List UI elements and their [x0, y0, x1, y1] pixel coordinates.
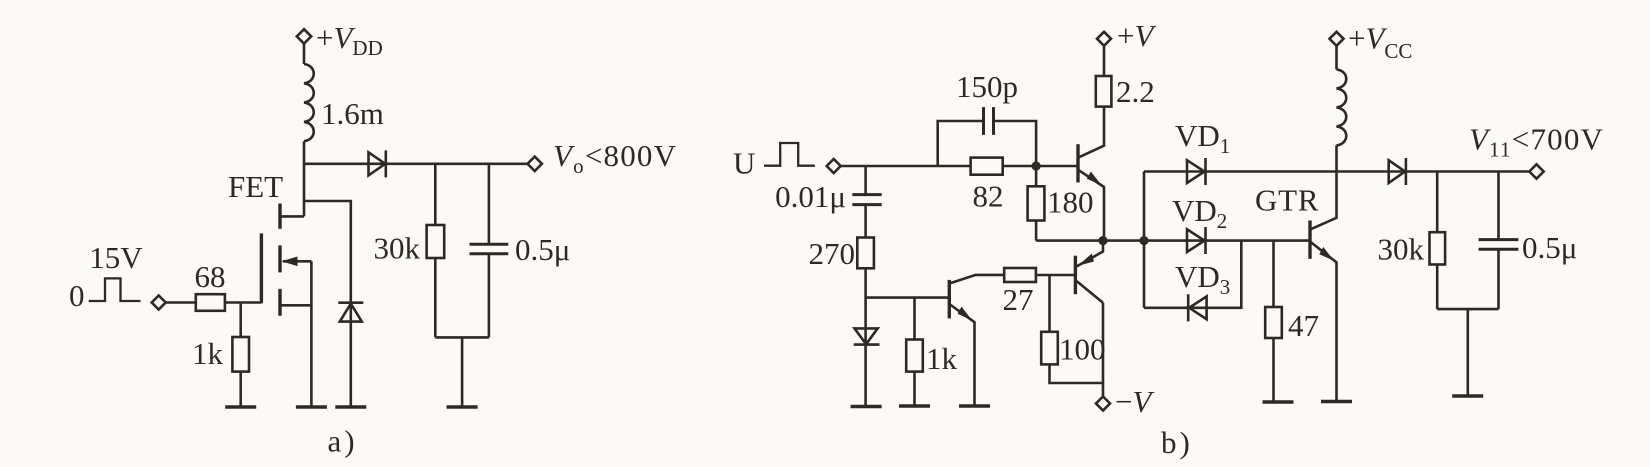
svg-text:V11<700V: V11<700V	[1469, 122, 1604, 162]
svg-text:VD1: VD1	[1175, 118, 1230, 158]
ground D3	[851, 405, 882, 408]
wire 30k b bottom	[1436, 265, 1439, 310]
svg-text:+VCC: +VCC	[1348, 21, 1412, 64]
svg-text:0.5μ: 0.5μ	[515, 232, 570, 267]
resistor R3 1k	[232, 337, 249, 372]
transistor Q2 emitter	[949, 304, 974, 406]
capacitor C4 0.5u	[1479, 240, 1519, 250]
transistor GTR bar	[1308, 221, 1311, 259]
svg-text:a): a)	[328, 424, 358, 459]
wire VDD to inductor	[303, 44, 306, 64]
resistor R8 82	[971, 158, 1003, 175]
svg-text:+VDD: +VDD	[316, 20, 383, 60]
diode D4 (output b)	[1389, 158, 1406, 185]
wire 1k b top	[913, 298, 916, 340]
wire main base line y240	[1036, 239, 1310, 242]
svg-text:0.01μ: 0.01μ	[775, 179, 846, 214]
svg-text:30k: 30k	[374, 231, 421, 266]
ground GTR	[1321, 400, 1352, 403]
ground RC a	[447, 405, 478, 408]
wire Q3 collector down	[1102, 303, 1105, 383]
capacitor C1 0.5u	[470, 244, 509, 253]
pulse waveform b	[764, 143, 815, 166]
resistor R12 30k	[1430, 232, 1446, 264]
node input diamond a	[152, 296, 166, 310]
svg-text:0: 0	[69, 278, 85, 313]
inductor L1 1.6m	[304, 64, 314, 141]
wire 30k b top	[1436, 172, 1439, 233]
wire 0.01u top	[864, 166, 867, 195]
wire FET source down	[310, 261, 313, 407]
transistor Q2 collector	[949, 275, 1004, 284]
capacitor C2 0.01u	[852, 195, 881, 205]
wire cap b top	[1497, 172, 1500, 240]
wire 270 to diode	[864, 268, 867, 406]
resistor R9 2.2	[1096, 76, 1112, 107]
wire 180 top	[1035, 166, 1038, 186]
svg-text:U: U	[733, 146, 755, 181]
svg-text:47: 47	[1288, 308, 1319, 343]
wire VD3 line	[1144, 241, 1241, 308]
ground body diode	[335, 405, 366, 408]
Q3 emitter arrow	[1078, 254, 1094, 266]
inductor L2	[1337, 69, 1347, 145]
wire body diode branch	[304, 201, 351, 407]
capacitor C3 150p	[984, 107, 994, 135]
wire VD1/output line	[1144, 170, 1529, 173]
node +V diamond	[1097, 32, 1111, 46]
wire 68 to gate	[225, 301, 262, 304]
node +VDD diamond	[297, 29, 311, 43]
junction dot VD branch	[1139, 236, 1148, 245]
ground 1k b	[899, 404, 930, 407]
svg-text:VD2: VD2	[1172, 193, 1227, 233]
transistor Q1 collector	[1078, 107, 1104, 158]
svg-text:150p: 150p	[956, 69, 1018, 104]
ground 47	[1263, 400, 1294, 403]
pulse waveform a	[89, 278, 141, 301]
wire 180 bottom	[1035, 221, 1038, 241]
GTR emitter arrow	[1319, 247, 1334, 261]
wire cap b bottom	[1497, 249, 1500, 309]
svg-text:270: 270	[809, 236, 856, 271]
svg-text:1k: 1k	[926, 341, 958, 376]
svg-text:27: 27	[1003, 282, 1034, 317]
junction dot Q1/Q3 emitters	[1098, 236, 1107, 245]
svg-text:30k: 30k	[1378, 232, 1425, 267]
svg-text:FET: FET	[228, 169, 283, 204]
resistor R4 270	[857, 238, 874, 269]
wire 100 top	[1048, 275, 1051, 332]
FET drain tap	[280, 215, 304, 218]
wire RC bottom bar	[435, 337, 489, 407]
resistor R7 100	[1041, 332, 1058, 365]
transistor Q3 collector	[1077, 281, 1104, 303]
transistor GTR collector	[1310, 145, 1337, 229]
FET source tap	[280, 304, 311, 307]
Q1 emitter arrow	[1087, 172, 1102, 186]
diode D2 (body, up)	[338, 303, 363, 322]
wire 100 bottom to -V	[1050, 364, 1104, 396]
transistor Q3 emitter	[1077, 241, 1104, 267]
diode VD2	[1187, 227, 1206, 254]
node Vo diamond	[528, 157, 542, 171]
FET gate bar	[260, 233, 263, 303]
wire 27 to Q3 base	[1036, 274, 1076, 277]
svg-text:100: 100	[1059, 332, 1106, 367]
ground FET	[296, 405, 327, 408]
svg-text:VD3: VD3	[1175, 259, 1230, 299]
svg-text:+V: +V	[1117, 18, 1156, 53]
svg-text:1k: 1k	[192, 336, 224, 371]
node -V diamond	[1096, 397, 1110, 411]
wire 1k b bottom	[913, 372, 916, 406]
wire Q2 base line	[866, 296, 950, 299]
svg-text:−V: −V	[1115, 384, 1154, 419]
wire RC b bottom bar	[1437, 309, 1498, 396]
transistor Q1 emitter	[1078, 170, 1104, 241]
wire 0.01u to 270	[864, 205, 867, 238]
svg-text:15V: 15V	[89, 240, 143, 275]
wire L2 to +VCC	[1335, 46, 1338, 70]
transistor Q2 bar	[948, 280, 951, 319]
svg-text:GTR: GTR	[1255, 183, 1319, 218]
svg-text:82: 82	[973, 179, 1004, 214]
wire inductor to drain	[303, 141, 306, 216]
wire cap bottom	[488, 254, 491, 338]
node input diamond b	[827, 159, 841, 173]
diode VD1	[1187, 158, 1206, 185]
wire 47 top	[1272, 241, 1275, 307]
resistor R11 47	[1265, 307, 1282, 338]
resistor R6 27	[1004, 268, 1036, 282]
svg-text:1.6m: 1.6m	[321, 96, 384, 131]
resistor R10 180	[1028, 186, 1045, 220]
junction dot 82/base	[1032, 161, 1041, 170]
svg-text:Vo<800V: Vo<800V	[553, 138, 677, 178]
FET body arrow	[283, 260, 311, 263]
ground RC b	[1452, 394, 1483, 397]
wire input to 68	[166, 301, 196, 304]
wire cap top	[488, 164, 491, 245]
svg-text:2.2: 2.2	[1116, 74, 1155, 109]
Q2 emitter arrow	[958, 307, 973, 321]
svg-text:180: 180	[1047, 185, 1094, 220]
wire VD left vertical	[1143, 172, 1146, 308]
resistor R2 30k	[427, 225, 445, 258]
svg-text:0.5μ: 0.5μ	[1522, 230, 1577, 265]
wire 30k top	[434, 164, 437, 225]
ground Q2	[959, 404, 990, 407]
wire output line a	[304, 163, 527, 166]
svg-text:b): b)	[1161, 425, 1193, 460]
wire 1k top	[239, 303, 242, 338]
wire 150p branch	[938, 121, 1036, 166]
wire 1k bottom	[239, 372, 242, 407]
wire 2.2 to +V	[1103, 46, 1106, 76]
transistor GTR emitter	[1310, 242, 1337, 402]
diode D3 (down)	[854, 328, 880, 344]
transistor Q1 bar	[1076, 144, 1079, 182]
node +VCC diamond	[1330, 32, 1344, 46]
node output diamond b	[1529, 164, 1543, 178]
wire 47 bottom	[1272, 338, 1275, 402]
wire input line b	[841, 165, 1078, 168]
ground 1k a	[225, 405, 256, 408]
diode VD3	[1188, 294, 1206, 321]
resistor R1 68	[196, 294, 225, 311]
wire 30k bottom	[434, 258, 437, 337]
diode D1 (output)	[369, 150, 386, 177]
resistor R5 1k	[906, 340, 923, 372]
FET channel dashes	[278, 204, 281, 316]
transistor Q3 bar	[1074, 256, 1077, 295]
svg-text:68: 68	[195, 259, 226, 294]
